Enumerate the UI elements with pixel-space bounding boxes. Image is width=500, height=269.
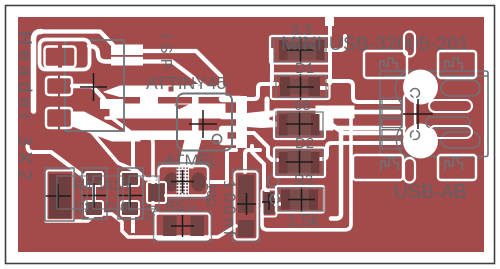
wire diag C lead <box>28 146 95 202</box>
wire bulge2 <box>111 56 143 66</box>
component column: comp A D1 <box>270 36 330 64</box>
wire usb sig4 <box>320 143 399 159</box>
pad J1-5 <box>46 108 58 128</box>
staple BR <box>445 158 462 170</box>
bottom comp1 <box>45 168 74 221</box>
component column: comp E 1.5k <box>276 186 324 213</box>
svg-text:10: 10 <box>97 177 113 193</box>
wire top gnd loop vertical <box>34 32 42 112</box>
bottom comp2 <box>81 168 107 219</box>
USB inner shell line <box>385 75 488 77</box>
component column: comp D <box>274 148 325 178</box>
pad U1 right stubs <box>222 99 240 142</box>
wire comp3 feed <box>131 139 135 172</box>
IC body silkscreen <box>158 163 210 198</box>
USB white finger 2 <box>429 126 472 138</box>
wire band B <box>110 104 225 118</box>
USB shell finger mid <box>426 117 470 128</box>
wire usb sig3 <box>331 124 399 133</box>
pad J1-4 <box>60 77 72 95</box>
USB top slot capsule <box>404 32 415 57</box>
wire attiny vertical inner <box>192 84 199 137</box>
wire compA left down <box>270 50 274 80</box>
wire band B wedge <box>173 104 191 110</box>
wire bottom snake <box>46 214 236 237</box>
staple TR <box>445 58 462 70</box>
resistor R5 <box>154 212 212 242</box>
header ring row1 <box>40 40 90 70</box>
wire compA right hook <box>324 36 345 50</box>
svg-text:D1: D1 <box>295 60 314 77</box>
wire m1 up <box>247 84 277 99</box>
staple BL <box>381 158 398 170</box>
wire attiny right bus <box>236 96 247 148</box>
pad J1-3 <box>46 77 58 95</box>
staple TL <box>380 58 397 70</box>
wire usb sig3 fat <box>316 119 333 130</box>
IC body cross <box>171 170 194 193</box>
svg-text:USB-AB: USB-AB <box>394 181 467 203</box>
svg-text:D2: D2 <box>295 135 314 152</box>
svg-text:D: D <box>105 199 115 215</box>
wire compB left down <box>265 99 270 118</box>
silkscreen circle F2 <box>268 176 279 187</box>
wire top gnd loop horizontal <box>41 32 113 46</box>
svg-text:10Ω: 10Ω <box>204 183 219 207</box>
wire usb sig1 <box>321 21 399 102</box>
USB mount hole bottom <box>411 131 420 140</box>
bottom comp3 <box>117 168 143 219</box>
component column: comp C D2 <box>274 110 325 140</box>
wire lower cont <box>142 62 211 92</box>
USB mount circle bottom <box>403 124 438 159</box>
pad J1-1 <box>45 47 59 68</box>
pad J1-2 <box>62 47 76 68</box>
header J1 silkscreen box <box>65 40 124 131</box>
wire m3 compD <box>247 133 277 160</box>
USB pad TL <box>364 51 407 78</box>
wire c1 top <box>245 150 260 172</box>
wire m4 compE <box>252 146 278 196</box>
silkscreen circle F <box>270 194 279 203</box>
svg-text:ATTINY45: ATTINY45 <box>146 73 226 93</box>
bottom comp4 led <box>147 182 166 203</box>
wire m2 compC <box>247 111 277 129</box>
bulge separator <box>109 55 145 57</box>
wire band C <box>140 131 227 140</box>
svg-text:Header 3X2: Header 3X2 <box>14 31 36 185</box>
USB connector silkscreen box <box>380 71 488 157</box>
svg-text:1R: 1R <box>113 177 131 193</box>
IC body ring <box>159 166 209 196</box>
IC body <box>177 168 190 196</box>
wire row1 jog <box>89 46 113 62</box>
USB cross <box>403 99 433 129</box>
component column: comp B <box>271 74 330 101</box>
USB shell finger 3 <box>441 132 480 148</box>
wire diag A <box>106 118 158 213</box>
wire usb vert inner stub <box>331 130 341 219</box>
IC U1 silkscreen box <box>177 94 232 151</box>
wire upper cont <box>142 51 221 88</box>
header J1 cross <box>80 73 107 101</box>
wire top edge stub <box>325 15 334 26</box>
wire band A <box>104 86 225 97</box>
wire usb sig2 <box>352 110 399 115</box>
wire band A notch <box>168 86 174 92</box>
wire diag B <box>90 130 158 179</box>
USB mount hole top <box>411 89 420 98</box>
USB pad BR <box>438 155 476 180</box>
IC body right pin <box>191 173 206 192</box>
USB white finger 1 <box>429 100 472 112</box>
svg-text:R3: R3 <box>294 172 313 189</box>
wire comp3 out <box>131 216 135 233</box>
wire AB bridge <box>140 95 158 105</box>
USB bottom slot capsule <box>404 158 415 183</box>
svg-text:R4: R4 <box>74 177 92 193</box>
USB shell finger 1 <box>441 80 480 96</box>
component F <box>262 190 277 217</box>
USB pad TR <box>438 51 476 78</box>
svg-text:100nf: 100nf <box>220 180 239 239</box>
wire row3 fat diag <box>72 112 140 141</box>
USB mount circle top <box>403 70 438 105</box>
wire usb circle feed <box>336 126 404 131</box>
USB mount ear arc bottom <box>396 125 406 157</box>
wire 1p5k loop to usb <box>262 115 351 230</box>
wire usb sig2 fat <box>316 106 354 118</box>
IC U1 cross <box>189 110 217 138</box>
USB pin outlines <box>382 98 402 149</box>
USB pad BL <box>353 155 403 180</box>
wire body right up <box>208 150 236 182</box>
silkscreen extra boxes garble <box>57 176 159 209</box>
IC U1 pin1 circle <box>212 134 221 143</box>
svg-text:C2: C2 <box>74 199 92 215</box>
wire bulge1 <box>111 45 143 56</box>
USB mount ear arc top <box>395 72 406 105</box>
wire row2 trace <box>72 86 104 99</box>
IC body left pin <box>164 173 179 192</box>
pad J1-6 <box>60 108 72 128</box>
svg-text:68: 68 <box>294 97 311 114</box>
svg-text:ISP: ISP <box>157 34 174 74</box>
wire band B left bar <box>100 99 124 109</box>
svg-text:1.5k: 1.5k <box>287 211 320 230</box>
wire m2 notch <box>266 115 277 122</box>
capacitor C1 100nf <box>233 170 260 242</box>
USB center capsule <box>404 93 415 139</box>
wire attiny body neck <box>178 136 202 168</box>
